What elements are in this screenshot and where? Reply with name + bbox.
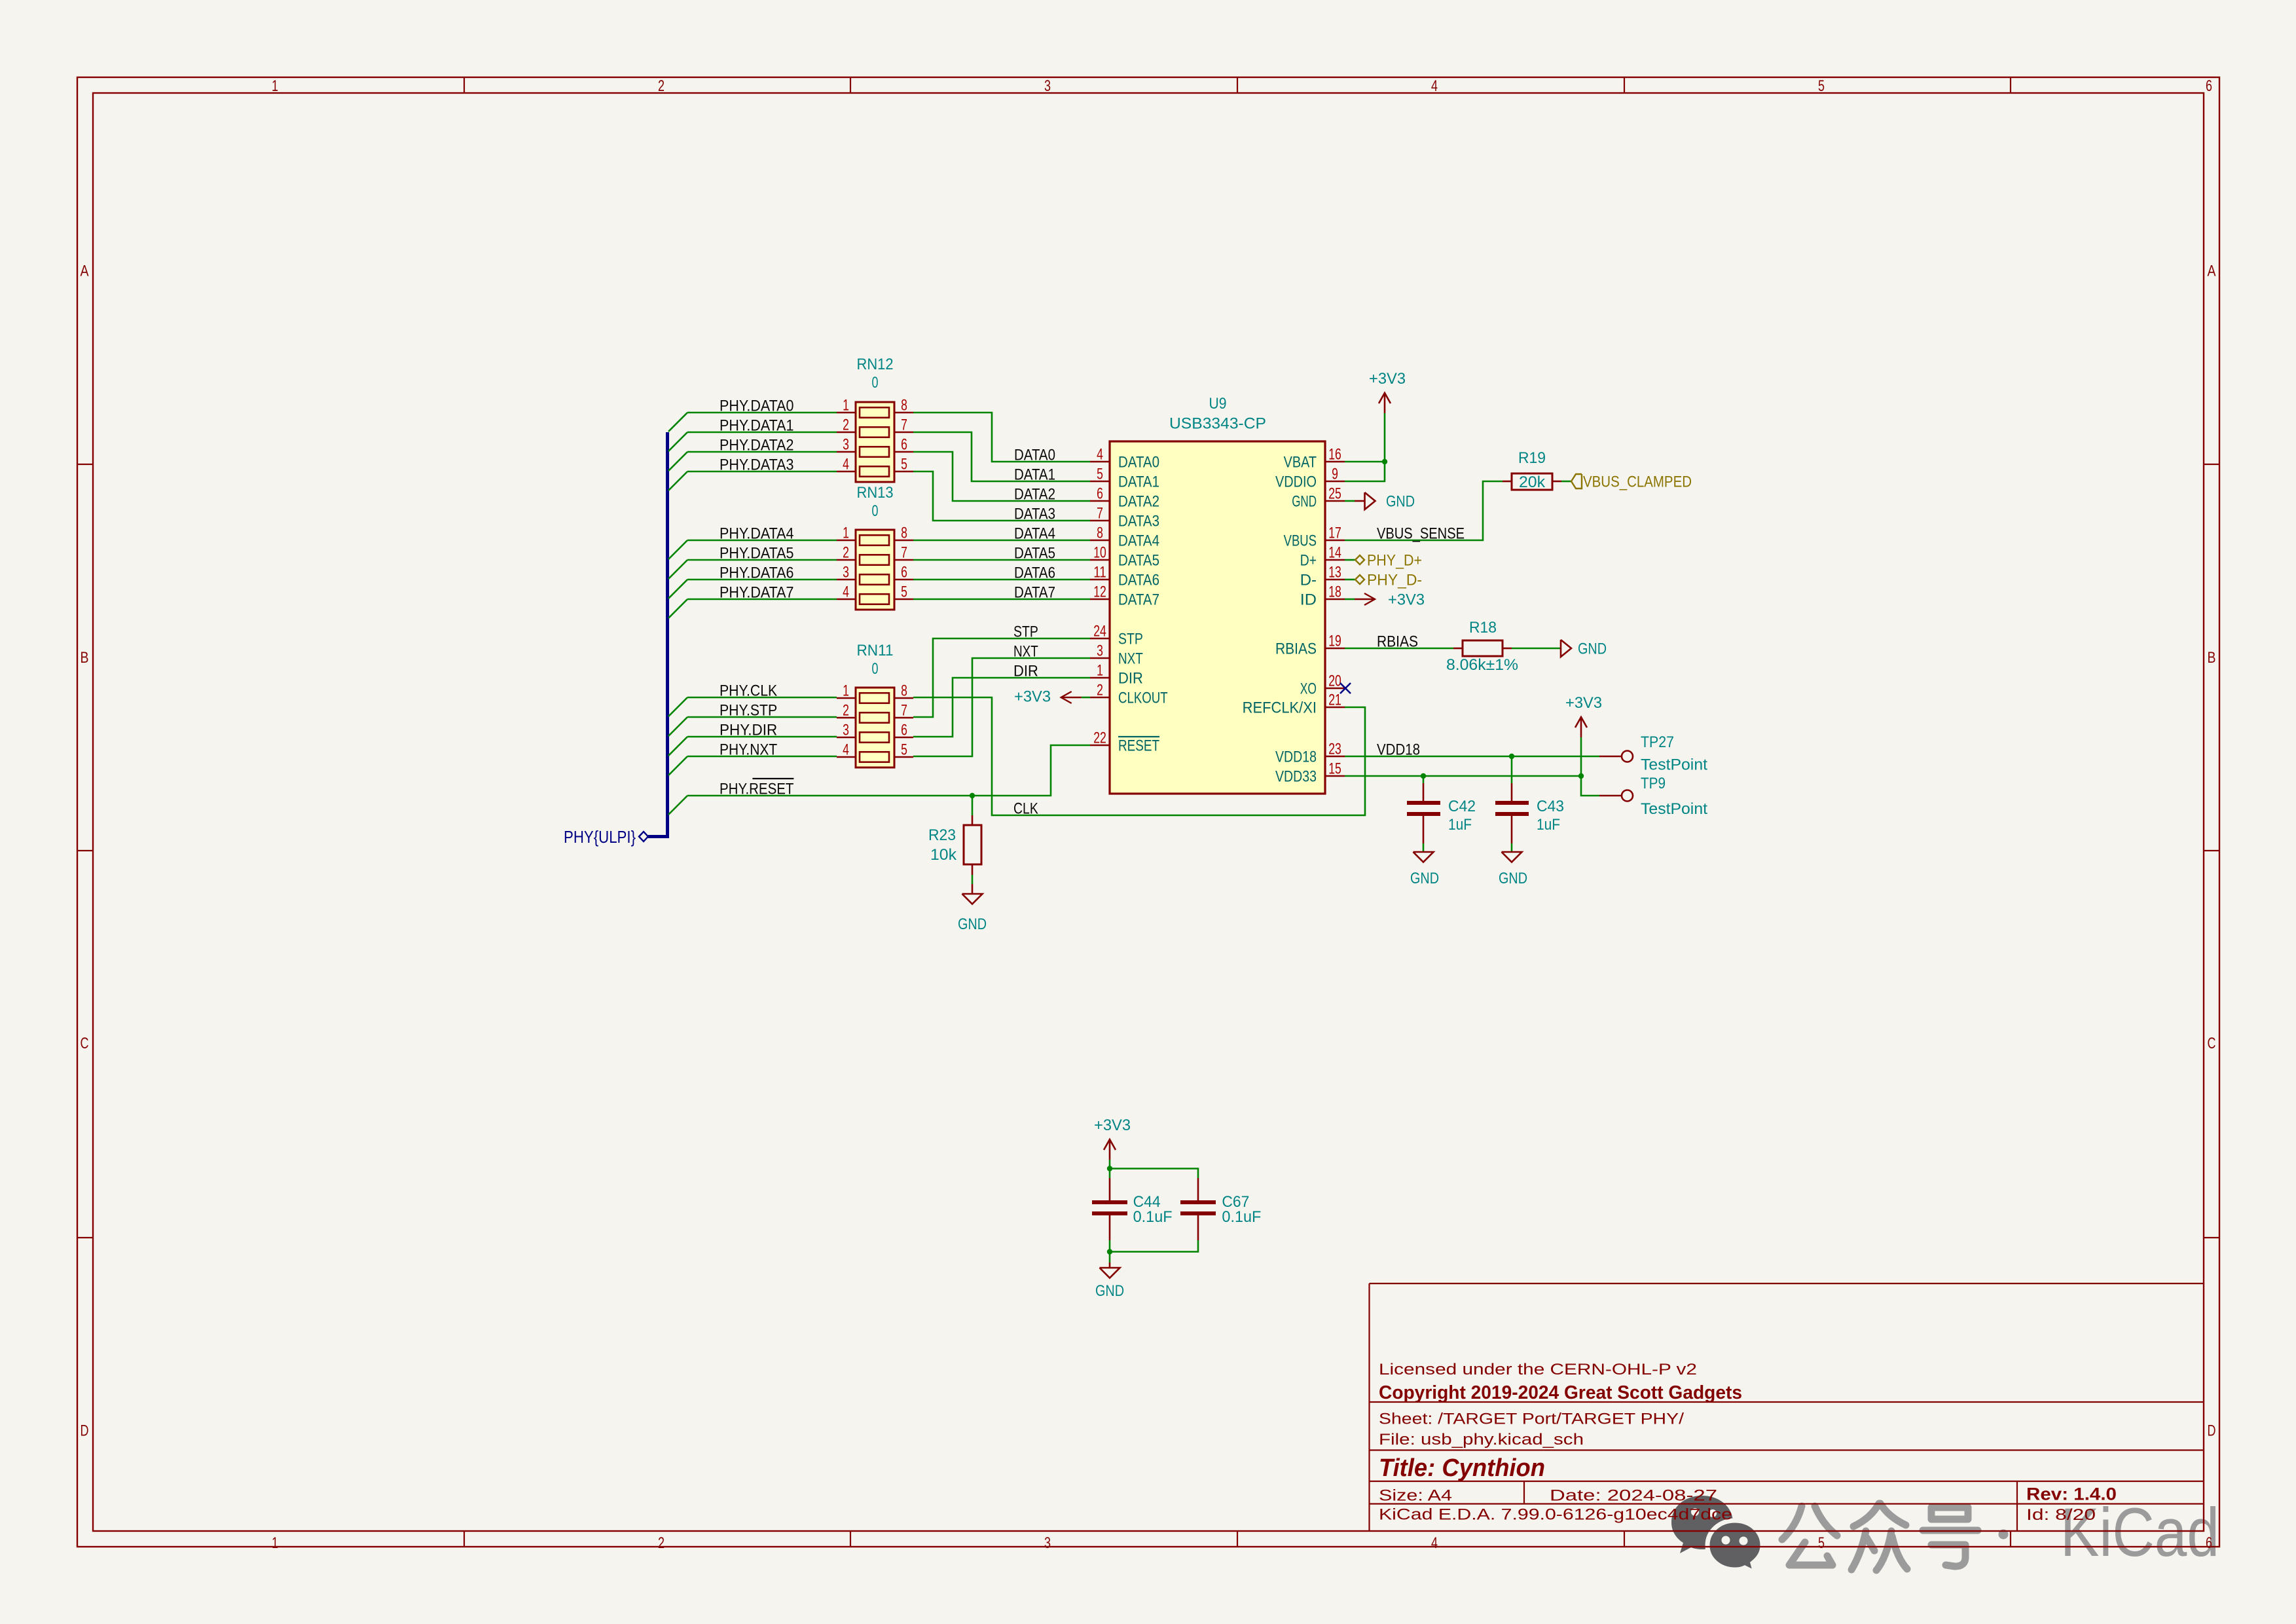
svg-text:DATA7: DATA7 bbox=[1118, 591, 1159, 609]
svg-text:TestPoint: TestPoint bbox=[1641, 756, 1707, 774]
svg-text:14: 14 bbox=[1328, 544, 1341, 562]
svg-text:C: C bbox=[81, 1035, 89, 1052]
svg-text:+3V3: +3V3 bbox=[1565, 694, 1602, 712]
svg-text:11: 11 bbox=[1093, 564, 1106, 581]
svg-text:7: 7 bbox=[901, 544, 907, 562]
svg-text:GND: GND bbox=[1499, 870, 1527, 887]
power +3V3 (C44) bbox=[1094, 1116, 1131, 1169]
svg-text:Copyright 2019-2024 Great Scot: Copyright 2019-2024 Great Scott Gadgets bbox=[1379, 1382, 1742, 1403]
wire VDD18 bbox=[1345, 756, 1599, 758]
svg-text:PHY.RESET: PHY.RESET bbox=[720, 781, 794, 798]
svg-text:6: 6 bbox=[901, 564, 907, 581]
svg-text:0: 0 bbox=[872, 660, 879, 678]
svg-text:GND: GND bbox=[958, 915, 987, 933]
wire PHY.NXT bbox=[687, 756, 837, 758]
svg-text:R18: R18 bbox=[1469, 619, 1497, 637]
svg-text:DATA1: DATA1 bbox=[1014, 466, 1055, 484]
wire PHY.STP bbox=[687, 716, 837, 718]
svg-text:5: 5 bbox=[901, 741, 907, 759]
svg-text:GND: GND bbox=[1386, 493, 1415, 511]
wire RBIAS bbox=[1345, 648, 1453, 650]
label PHY.DATA2 bbox=[720, 437, 793, 454]
label DIR bbox=[1013, 663, 1038, 680]
resistor network RN13 bbox=[837, 484, 913, 610]
bus PHY{ULPI} bbox=[648, 432, 668, 837]
svg-text:RN11: RN11 bbox=[857, 642, 894, 659]
junction VDD18/C43 bbox=[1509, 754, 1514, 759]
power +3V3 (CLKOUT) bbox=[1014, 688, 1090, 706]
svg-text:PHY_D-: PHY_D- bbox=[1367, 572, 1422, 589]
wire RBIAS-GND bbox=[1512, 648, 1561, 650]
label DATA6 bbox=[1014, 564, 1055, 582]
svg-text:5: 5 bbox=[901, 456, 907, 473]
wire DATA1 bbox=[913, 432, 1090, 481]
svg-text:12: 12 bbox=[1093, 583, 1106, 601]
resistor network RN11 bbox=[837, 642, 913, 767]
svg-text:VBUS: VBUS bbox=[1284, 532, 1317, 550]
svg-text:C: C bbox=[2208, 1035, 2216, 1052]
svg-text:GND: GND bbox=[1410, 870, 1439, 887]
label PHY.DATA7 bbox=[720, 584, 793, 602]
svg-text:2: 2 bbox=[1097, 682, 1103, 699]
svg-text:RBIAS: RBIAS bbox=[1377, 633, 1418, 651]
svg-text:RN13: RN13 bbox=[857, 484, 894, 502]
svg-text:6: 6 bbox=[901, 722, 907, 739]
svg-text:PHY.NXT: PHY.NXT bbox=[720, 741, 777, 759]
capacitor C44 0.1uF bbox=[1092, 1169, 1173, 1252]
wire C67 top bbox=[1110, 1169, 1198, 1179]
label DATA3 bbox=[1014, 506, 1055, 523]
svg-text:PHY{ULPI}: PHY{ULPI} bbox=[564, 827, 636, 847]
svg-text:VDD18: VDD18 bbox=[1275, 748, 1317, 766]
label PHY.DIR bbox=[720, 722, 777, 739]
svg-text:0: 0 bbox=[872, 502, 879, 520]
svg-text:REFCLK/XI: REFCLK/XI bbox=[1243, 699, 1317, 717]
label PHY.DATA1 bbox=[720, 417, 793, 435]
testpoint TP9 bbox=[1599, 775, 1707, 818]
svg-text:1: 1 bbox=[1097, 662, 1103, 680]
svg-text:4: 4 bbox=[1431, 77, 1438, 95]
svg-text:R23: R23 bbox=[928, 826, 956, 844]
svg-text:1: 1 bbox=[843, 397, 849, 415]
power +3V3 bbox=[1369, 370, 1406, 413]
svg-text:DATA6: DATA6 bbox=[1118, 572, 1159, 589]
svg-text:7: 7 bbox=[1097, 505, 1103, 523]
capacitor C67 0.1uF bbox=[1180, 1178, 1261, 1240]
wire PHY.DATA1 bbox=[687, 432, 837, 434]
svg-text:3: 3 bbox=[1044, 77, 1051, 95]
bus entry bbox=[668, 599, 687, 618]
svg-text:4: 4 bbox=[1097, 446, 1103, 464]
resistor R23 10k bbox=[928, 796, 981, 875]
svg-text:+3V3: +3V3 bbox=[1369, 370, 1406, 388]
power GND (R23) bbox=[958, 875, 987, 933]
svg-text:STP: STP bbox=[1013, 623, 1038, 641]
svg-text:3: 3 bbox=[1044, 1534, 1051, 1552]
svg-text:6: 6 bbox=[901, 436, 907, 454]
svg-text:RBIAS: RBIAS bbox=[1275, 640, 1317, 658]
svg-text:PHY.DIR: PHY.DIR bbox=[720, 722, 777, 739]
svg-text:3: 3 bbox=[1097, 642, 1103, 660]
svg-text:TestPoint: TestPoint bbox=[1641, 800, 1707, 818]
svg-text:A: A bbox=[2208, 263, 2216, 280]
svg-text:5: 5 bbox=[901, 583, 907, 601]
svg-text:2: 2 bbox=[843, 702, 849, 720]
svg-text:VDD18: VDD18 bbox=[1377, 741, 1420, 759]
wire PHY.DIR bbox=[687, 736, 837, 738]
junction C44/C67 gnd bbox=[1107, 1249, 1112, 1254]
svg-text:8: 8 bbox=[901, 525, 907, 542]
svg-text:4: 4 bbox=[843, 456, 849, 473]
label DATA0 bbox=[1014, 447, 1055, 464]
svg-text:R19: R19 bbox=[1518, 449, 1546, 467]
svg-text:+3V3: +3V3 bbox=[1094, 1116, 1131, 1134]
svg-text:2: 2 bbox=[658, 77, 665, 95]
power GND (pin 25) bbox=[1345, 492, 1415, 511]
svg-text:Title: Cynthion: Title: Cynthion bbox=[1379, 1454, 1545, 1482]
svg-text:C42: C42 bbox=[1448, 798, 1476, 815]
svg-text:PHY_D+: PHY_D+ bbox=[1367, 552, 1422, 570]
wire PHY.DATA0 bbox=[687, 412, 837, 414]
svg-text:DATA2: DATA2 bbox=[1118, 493, 1159, 511]
svg-text:6: 6 bbox=[2206, 1534, 2212, 1552]
label PHY.DATA6 bbox=[720, 564, 793, 582]
power GND (C42) bbox=[1410, 843, 1439, 887]
wire PHY.DATA2 bbox=[687, 451, 837, 453]
svg-text:DATA7: DATA7 bbox=[1014, 584, 1055, 602]
no-connect X (pin 20 XO) bbox=[1340, 683, 1351, 693]
svg-text:1: 1 bbox=[272, 1534, 278, 1552]
svg-text:VBUS_SENSE: VBUS_SENSE bbox=[1377, 525, 1465, 543]
svg-text:NXT: NXT bbox=[1118, 650, 1143, 668]
svg-text:5: 5 bbox=[1818, 77, 1825, 95]
svg-text:B: B bbox=[2208, 649, 2216, 667]
bus label PHY{ULPI} bbox=[564, 827, 648, 847]
label PHY.RESET bbox=[720, 779, 794, 798]
testpoint TP27 bbox=[1599, 733, 1707, 774]
label PHY.DATA0 bbox=[720, 397, 793, 415]
svg-text:20k: 20k bbox=[1519, 473, 1546, 491]
svg-text:1uF: 1uF bbox=[1448, 816, 1472, 834]
wire PHY.DATA7 bbox=[687, 599, 837, 600]
svg-text:4: 4 bbox=[843, 741, 849, 759]
wire PHY.DATA5 bbox=[687, 559, 837, 561]
svg-text:DATA3: DATA3 bbox=[1118, 513, 1159, 530]
wire VBAT bbox=[1345, 461, 1385, 463]
svg-text:PHY.DATA0: PHY.DATA0 bbox=[720, 397, 793, 415]
svg-text:DIR: DIR bbox=[1013, 663, 1038, 680]
hierarchical label PHY_D- bbox=[1355, 572, 1422, 589]
label DATA5 bbox=[1014, 545, 1055, 563]
wire PHY.DATA4 bbox=[687, 540, 837, 542]
svg-text:25: 25 bbox=[1328, 485, 1341, 503]
label DATA7 bbox=[1014, 584, 1055, 602]
label PHY.NXT bbox=[720, 741, 777, 759]
junction VDD33/C42 bbox=[1421, 773, 1426, 779]
wire DATA4 bbox=[913, 540, 1090, 542]
svg-text:XO: XO bbox=[1300, 680, 1317, 698]
junction PHY.RESET/R23 bbox=[970, 793, 975, 798]
label STP bbox=[1013, 623, 1038, 641]
svg-text:DATA4: DATA4 bbox=[1014, 525, 1055, 543]
power +3V3 (ID) bbox=[1355, 591, 1425, 609]
svg-text:1: 1 bbox=[843, 525, 849, 542]
svg-text:D: D bbox=[2208, 1422, 2216, 1440]
hierarchical label VBUS_CLAMPED bbox=[1571, 473, 1692, 491]
svg-text:2: 2 bbox=[843, 416, 849, 434]
wire VBUS_SENSE bbox=[1345, 481, 1503, 540]
svg-text:24: 24 bbox=[1093, 623, 1106, 640]
wire TP9 bbox=[1581, 776, 1599, 796]
capacitor C42 1uF bbox=[1407, 776, 1476, 843]
wire PHY_D+ bbox=[1345, 559, 1355, 561]
bus entry bbox=[668, 697, 687, 716]
junction VDD33/+3V3/TP9 bbox=[1578, 773, 1584, 779]
svg-text:PHY.DATA2: PHY.DATA2 bbox=[720, 437, 793, 454]
svg-text:USB3343-CP: USB3343-CP bbox=[1169, 415, 1266, 433]
power GND (C44) bbox=[1095, 1252, 1124, 1301]
svg-text:19: 19 bbox=[1328, 633, 1341, 650]
label PHY.STP bbox=[720, 702, 777, 720]
svg-text:GND: GND bbox=[1292, 493, 1317, 511]
wire STP bbox=[913, 638, 1090, 717]
wire PHY.DATA6 bbox=[687, 579, 837, 581]
svg-text:C43: C43 bbox=[1537, 798, 1564, 815]
wire DATA6 bbox=[913, 579, 1090, 581]
svg-text:10k: 10k bbox=[930, 846, 957, 864]
label CLK bbox=[1013, 800, 1038, 818]
svg-text:6: 6 bbox=[2206, 77, 2212, 95]
svg-text:DIR: DIR bbox=[1118, 670, 1143, 688]
svg-text:3: 3 bbox=[843, 564, 849, 581]
wire CLK bbox=[913, 697, 1365, 815]
wire PHY.DATA3 bbox=[687, 471, 837, 473]
svg-text:D-: D- bbox=[1300, 572, 1317, 589]
svg-text:PHY.DATA1: PHY.DATA1 bbox=[720, 417, 793, 435]
svg-text:D+: D+ bbox=[1300, 552, 1317, 570]
label RBIAS bbox=[1377, 633, 1418, 651]
svg-text:3: 3 bbox=[843, 436, 849, 454]
bus entry bbox=[668, 432, 687, 451]
svg-text:4: 4 bbox=[1431, 1534, 1438, 1552]
wire C67 bottom bbox=[1110, 1240, 1198, 1252]
power GND (R18) bbox=[1561, 640, 1607, 658]
svg-text:8.06k±1%: 8.06k±1% bbox=[1446, 656, 1518, 674]
bus entry bbox=[668, 540, 687, 559]
svg-text:Id: 8/20: Id: 8/20 bbox=[2026, 1506, 2096, 1524]
svg-text:Rev: 1.4.0: Rev: 1.4.0 bbox=[2026, 1485, 2117, 1504]
svg-text:PHY.STP: PHY.STP bbox=[720, 702, 777, 720]
wire PHY.RESET bbox=[687, 745, 1090, 796]
svg-text:7: 7 bbox=[901, 702, 907, 720]
svg-text:16: 16 bbox=[1328, 446, 1341, 464]
label PHY.DATA5 bbox=[720, 545, 793, 563]
svg-text:22: 22 bbox=[1093, 729, 1106, 747]
svg-text:D: D bbox=[81, 1422, 89, 1440]
label PHY.DATA3 bbox=[720, 456, 793, 474]
bus entry bbox=[668, 737, 687, 756]
wire ID bbox=[1345, 599, 1355, 600]
svg-text:CLKOUT: CLKOUT bbox=[1118, 690, 1168, 707]
svg-text:5: 5 bbox=[1818, 1534, 1825, 1552]
capacitor C43 1uF bbox=[1495, 783, 1564, 843]
wire DATA0 bbox=[913, 413, 1090, 462]
svg-text:NXT: NXT bbox=[1013, 643, 1038, 661]
label DATA4 bbox=[1014, 525, 1055, 543]
svg-text:File: usb_phy.kicad_sch: File: usb_phy.kicad_sch bbox=[1379, 1431, 1584, 1449]
svg-text:13: 13 bbox=[1328, 564, 1341, 581]
svg-text:0.1uF: 0.1uF bbox=[1133, 1208, 1173, 1226]
svg-text:KiCad E.D.A. 7.99.0-6126-g10ec: KiCad E.D.A. 7.99.0-6126-g10ec4d7dce bbox=[1379, 1506, 1732, 1524]
wire C43 bbox=[1511, 756, 1513, 783]
svg-text:PHY.DATA3: PHY.DATA3 bbox=[720, 456, 793, 474]
label NXT bbox=[1013, 643, 1038, 661]
label VDD18 bbox=[1377, 741, 1420, 759]
svg-text:7: 7 bbox=[901, 416, 907, 434]
svg-text:5: 5 bbox=[1097, 466, 1103, 483]
wire DATA2 bbox=[913, 452, 1090, 501]
wire PHY.CLK bbox=[687, 697, 837, 699]
wire PHY_D- bbox=[1345, 579, 1355, 581]
svg-text:4: 4 bbox=[843, 583, 849, 601]
wire DATA3 bbox=[913, 471, 1090, 521]
bus entry bbox=[668, 717, 687, 736]
power GND (C43) bbox=[1499, 843, 1527, 887]
svg-text:+3V3: +3V3 bbox=[1014, 688, 1051, 706]
svg-text:VDDIO: VDDIO bbox=[1275, 473, 1317, 491]
resistor R18 8.06k bbox=[1446, 619, 1518, 674]
bus entry bbox=[668, 560, 687, 579]
hierarchical label PHY_D+ bbox=[1355, 552, 1422, 570]
svg-text:2: 2 bbox=[658, 1534, 665, 1552]
svg-text:Licensed under the CERN-OHL-P: Licensed under the CERN-OHL-P v2 bbox=[1379, 1361, 1697, 1378]
svg-text:TP9: TP9 bbox=[1641, 775, 1666, 792]
wire DATA7 bbox=[913, 599, 1090, 600]
resistor network RN12 bbox=[837, 356, 913, 482]
bus entry bbox=[668, 471, 687, 490]
bus entry bbox=[668, 452, 687, 471]
svg-text:8: 8 bbox=[901, 397, 907, 415]
svg-text:2: 2 bbox=[843, 544, 849, 562]
svg-text:RN12: RN12 bbox=[857, 356, 894, 373]
svg-text:3: 3 bbox=[843, 722, 849, 739]
junction +3V3/C44/C67 bbox=[1107, 1166, 1112, 1171]
svg-text:8: 8 bbox=[901, 682, 907, 700]
svg-text:VBAT: VBAT bbox=[1284, 454, 1317, 471]
label PHY.CLK bbox=[720, 682, 777, 700]
svg-text:6: 6 bbox=[1097, 485, 1103, 503]
svg-text:PHY.DATA5: PHY.DATA5 bbox=[720, 545, 793, 563]
svg-text:B: B bbox=[81, 649, 89, 667]
svg-text:GND: GND bbox=[1578, 640, 1607, 658]
resistor R19 20k bbox=[1503, 449, 1561, 491]
svg-text:DATA5: DATA5 bbox=[1014, 545, 1055, 563]
svg-text:0.1uF: 0.1uF bbox=[1222, 1208, 1261, 1226]
bus entry bbox=[668, 756, 687, 775]
bus entry bbox=[668, 413, 687, 432]
svg-text:DATA2: DATA2 bbox=[1014, 486, 1055, 504]
svg-text:GND: GND bbox=[1095, 1282, 1124, 1300]
svg-text:TP27: TP27 bbox=[1641, 733, 1674, 751]
svg-text:9: 9 bbox=[1332, 466, 1338, 483]
svg-text:8: 8 bbox=[1097, 525, 1103, 542]
label DATA2 bbox=[1014, 486, 1055, 504]
svg-text:DATA0: DATA0 bbox=[1118, 454, 1159, 471]
svg-text:PHY.DATA6: PHY.DATA6 bbox=[720, 564, 793, 582]
svg-text:PHY.DATA4: PHY.DATA4 bbox=[720, 525, 793, 543]
wire DATA5 bbox=[913, 559, 1090, 561]
svg-text:DATA5: DATA5 bbox=[1118, 552, 1159, 570]
svg-text:10: 10 bbox=[1093, 544, 1106, 562]
svg-text:A: A bbox=[81, 263, 89, 280]
bus entry bbox=[668, 580, 687, 599]
svg-text:CLK: CLK bbox=[1013, 800, 1038, 818]
svg-text:DATA1: DATA1 bbox=[1118, 473, 1159, 491]
svg-text:1: 1 bbox=[843, 682, 849, 700]
svg-text:RESET: RESET bbox=[1118, 737, 1159, 755]
junction VBAT/+3V3 bbox=[1382, 459, 1387, 464]
svg-text:21: 21 bbox=[1328, 692, 1341, 709]
svg-text:1uF: 1uF bbox=[1537, 816, 1560, 834]
svg-text:DATA3: DATA3 bbox=[1014, 506, 1055, 523]
svg-text:23: 23 bbox=[1328, 741, 1341, 758]
svg-text:18: 18 bbox=[1328, 583, 1341, 601]
svg-text:Size: A4: Size: A4 bbox=[1379, 1487, 1452, 1505]
svg-text:20: 20 bbox=[1328, 673, 1341, 690]
svg-text:0: 0 bbox=[872, 374, 879, 392]
svg-text:U9: U9 bbox=[1209, 395, 1227, 413]
wire DIR bbox=[913, 678, 1090, 737]
svg-text:PHY.CLK: PHY.CLK bbox=[720, 682, 777, 700]
wire VBUS_CLAMPED bbox=[1561, 481, 1571, 483]
label PHY.DATA4 bbox=[720, 525, 793, 543]
wire NXT bbox=[913, 658, 1090, 756]
svg-text:DATA0: DATA0 bbox=[1014, 447, 1055, 464]
svg-text:VBUS_CLAMPED: VBUS_CLAMPED bbox=[1583, 473, 1692, 491]
svg-text:15: 15 bbox=[1328, 760, 1341, 778]
bus entry bbox=[668, 796, 687, 815]
svg-text:Date: 2024-08-27: Date: 2024-08-27 bbox=[1550, 1487, 1717, 1505]
svg-text:ID: ID bbox=[1300, 591, 1317, 609]
label VBUS_SENSE bbox=[1377, 525, 1465, 543]
wire VDDIO bbox=[1345, 413, 1385, 481]
svg-text:DATA4: DATA4 bbox=[1118, 532, 1159, 550]
svg-text:+3V3: +3V3 bbox=[1388, 591, 1425, 609]
svg-text:STP: STP bbox=[1118, 631, 1143, 648]
svg-text:PHY.DATA7: PHY.DATA7 bbox=[720, 584, 793, 602]
svg-text:Sheet: /TARGET Port/TARGET PHY: Sheet: /TARGET Port/TARGET PHY/ bbox=[1379, 1411, 1684, 1428]
svg-text:DATA6: DATA6 bbox=[1014, 564, 1055, 582]
svg-text:17: 17 bbox=[1328, 525, 1341, 542]
wire VDD33 bbox=[1345, 775, 1581, 777]
power +3V3 (VDD33) bbox=[1565, 694, 1602, 776]
svg-text:VDD33: VDD33 bbox=[1275, 768, 1317, 786]
svg-text:1: 1 bbox=[272, 77, 278, 95]
IC U9 USB3343-CP bbox=[1090, 395, 1345, 794]
label DATA1 bbox=[1014, 466, 1055, 484]
